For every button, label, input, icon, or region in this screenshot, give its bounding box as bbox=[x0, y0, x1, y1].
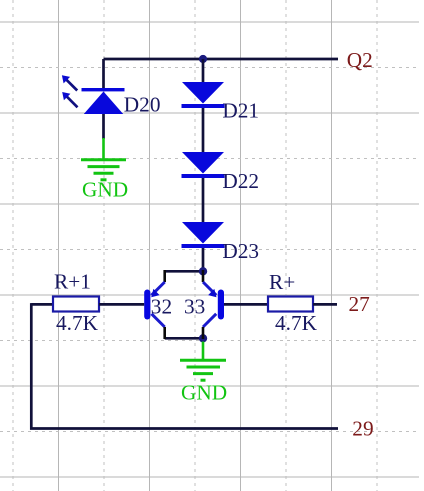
svg-text:29: 29 bbox=[352, 416, 373, 440]
wire: R+1 to base of transistor 32 bbox=[99, 303, 144, 306]
wire: base of transistor 33 to R+ bbox=[224, 303, 268, 306]
svg-text:GND: GND bbox=[82, 178, 128, 202]
svg-text:32: 32 bbox=[151, 295, 172, 319]
wire: top horizontal from D20 up to net Q2 bbox=[104, 58, 339, 61]
svg-text:D23: D23 bbox=[222, 239, 259, 263]
svg-text:27: 27 bbox=[349, 292, 371, 316]
wire: R+ to net 27 bbox=[313, 303, 337, 306]
photodiode D20 light arrows bbox=[62, 75, 78, 107]
svg-text:GND: GND bbox=[181, 381, 227, 405]
wire: D20 cathode pin (vertical up to top wire) bbox=[102, 59, 105, 89]
diode D22 bbox=[182, 152, 225, 178]
wire: left drop and bottom run to net 29 bbox=[31, 303, 338, 428]
resistor R+1 bbox=[53, 297, 99, 312]
junction: bottom of transistor pair bbox=[199, 334, 207, 342]
diode D21 bbox=[182, 82, 225, 108]
ground GND (upper) bbox=[81, 138, 126, 180]
svg-text:Q2: Q2 bbox=[347, 48, 373, 72]
svg-text:D20: D20 bbox=[124, 93, 161, 117]
wire: diode chain vertical segments bbox=[202, 59, 205, 271]
svg-text:R+1: R+1 bbox=[54, 270, 91, 294]
junction: top wire / diode chain bbox=[199, 55, 207, 63]
svg-text:33: 33 bbox=[184, 295, 205, 319]
wire: emitter join (top of transistor pair) bbox=[165, 270, 203, 273]
wire: bottom join of transistor pair bbox=[165, 337, 203, 340]
ground GND (lower) bbox=[180, 342, 226, 381]
junction: top of transistor pair bbox=[199, 267, 207, 275]
transistor 33 (right PNP) bbox=[203, 270, 224, 339]
transistor 32 (left PNP) bbox=[144, 270, 165, 339]
svg-text:R+: R+ bbox=[269, 270, 295, 294]
photodiode D20 bbox=[82, 88, 125, 114]
wire: D20 anode to GND bbox=[102, 114, 105, 139]
diode D23 bbox=[182, 222, 225, 248]
svg-text:4.7K: 4.7K bbox=[56, 311, 99, 335]
wire: left base wire to R+1 bbox=[31, 303, 53, 306]
svg-text:4.7K: 4.7K bbox=[275, 311, 318, 335]
svg-text:D22: D22 bbox=[222, 169, 259, 193]
svg-text:D21: D21 bbox=[222, 99, 259, 123]
resistor R+ bbox=[268, 297, 313, 312]
